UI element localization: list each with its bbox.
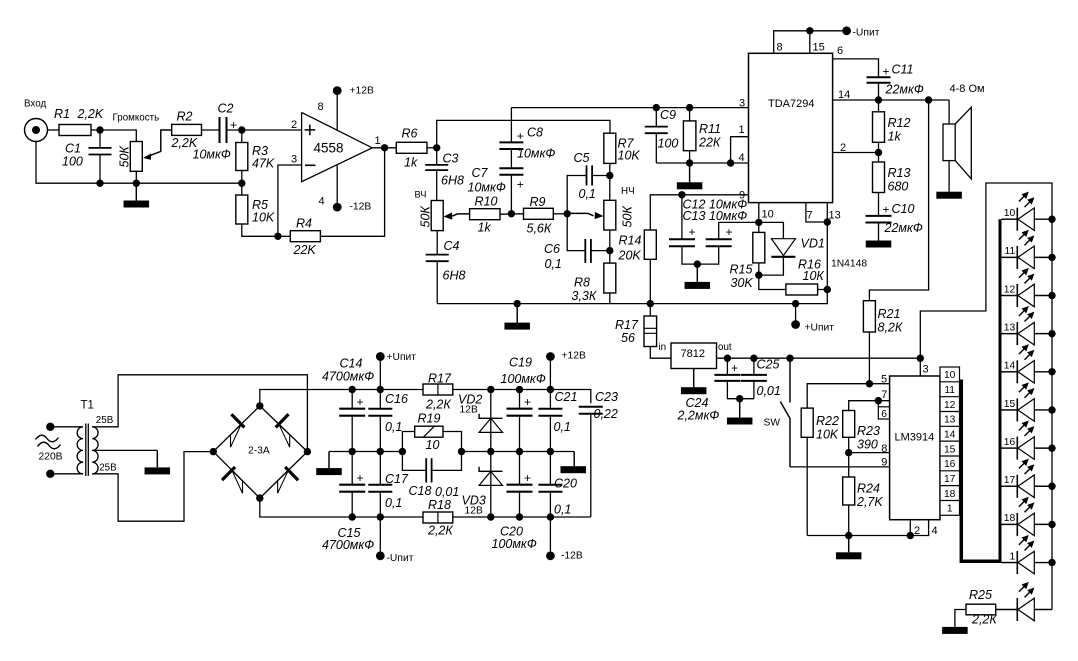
svg-text:14: 14 xyxy=(838,89,850,101)
tone bottom rail xyxy=(437,290,827,304)
LED HL7 (pin 16) emission arrows xyxy=(1019,421,1035,437)
value R16 10К xyxy=(803,269,825,283)
svg-text:+: + xyxy=(883,65,890,79)
node R24 ground xyxy=(845,532,852,539)
wire R8 bottom lead xyxy=(609,293,611,304)
node output to meter xyxy=(925,96,932,103)
wire jack ground side xyxy=(36,142,242,184)
svg-text:22мкФ: 22мкФ xyxy=(885,83,924,97)
wire to R7 top xyxy=(437,120,610,147)
pin 1 label LM xyxy=(947,504,953,515)
value C4 6Н8 xyxy=(443,269,466,283)
LED HL5 (pin 14) xyxy=(1002,360,1053,383)
pin 18 label LM xyxy=(944,489,956,500)
wire R5 bottom to feedback node xyxy=(242,224,278,236)
LED HL11 lowest xyxy=(996,598,1052,621)
terminal +Uпит left xyxy=(376,352,385,361)
node +Uпит tap xyxy=(792,300,799,307)
feedback top line xyxy=(511,107,656,109)
wire R4 left lead xyxy=(278,235,290,237)
svg-text:0,01: 0,01 xyxy=(757,384,781,398)
node C11/R12 xyxy=(875,96,882,103)
label +Uпит left xyxy=(387,352,417,363)
terminal -Uпит top xyxy=(842,26,851,35)
wire pin8 line xyxy=(849,452,890,454)
wire AC top xyxy=(50,426,83,428)
svg-text:0,22: 0,22 xyxy=(594,407,618,421)
wire +12V supply xyxy=(336,91,338,131)
value C2 10мкФ xyxy=(193,148,231,162)
pin 6 label TDA xyxy=(837,45,843,57)
positive rail xyxy=(352,389,423,391)
svg-text:R6: R6 xyxy=(402,127,418,141)
op-amp 4558 label xyxy=(314,141,344,156)
svg-text:50К: 50К xyxy=(419,206,433,228)
svg-text:C1: C1 xyxy=(65,142,81,156)
LED HL2 (pin 11) emission arrows xyxy=(1019,230,1035,246)
pin 6 label LM xyxy=(881,409,887,420)
input jack connector Вход xyxy=(25,119,48,142)
resistor R11 xyxy=(683,121,696,151)
wire C13 top lead xyxy=(719,222,759,239)
LED driver U4 LM3914 box xyxy=(890,376,940,520)
node mid VD2 xyxy=(487,448,494,455)
bass pot wiper arrow xyxy=(567,212,603,219)
svg-text:+: + xyxy=(689,225,696,239)
node neg C20b xyxy=(547,513,554,520)
plus C19 xyxy=(524,395,531,409)
capacitor C17 xyxy=(368,485,392,492)
node feedback junction xyxy=(274,233,281,240)
pin 4 label TDA xyxy=(739,152,745,164)
node C24/C25 ground xyxy=(736,395,743,402)
node LED HL10 anode xyxy=(1048,559,1055,566)
value C20 100мкФ xyxy=(492,537,537,551)
wire pin3 line xyxy=(656,107,748,109)
svg-text:TDA7294: TDA7294 xyxy=(768,98,814,110)
label R1 xyxy=(54,107,70,121)
value R10 1k xyxy=(478,221,492,235)
wire C15 top lead xyxy=(351,452,353,485)
capacitor C24 xyxy=(714,375,740,381)
wire C24 top lead xyxy=(726,358,728,375)
wire C25 bottom lead xyxy=(753,381,755,399)
label T1 xyxy=(81,400,94,412)
capacitor C6 xyxy=(585,239,591,263)
LED HL1 (pin 10) xyxy=(1002,208,1053,231)
wire C19 bottom lead xyxy=(519,416,521,452)
label Вход xyxy=(24,99,46,110)
value R11 22К xyxy=(698,136,721,150)
value R17 56 xyxy=(621,331,635,345)
capacitor C8 xyxy=(499,142,523,149)
label TDA7294 xyxy=(768,98,814,110)
value C19 100мкФ xyxy=(501,372,546,386)
label VD2 xyxy=(458,393,482,407)
svg-text:C19: C19 xyxy=(509,356,532,370)
wire x928 sense line xyxy=(869,100,928,301)
value C20 0,1 xyxy=(554,503,571,517)
svg-text:20K: 20K xyxy=(618,249,642,263)
capacitor C21 xyxy=(538,409,562,416)
pin 8 label LM xyxy=(881,443,887,455)
node C12/C13 ground xyxy=(694,260,701,267)
svg-text:1N4148: 1N4148 xyxy=(831,259,867,270)
LED HL10 (pin 1) pin label xyxy=(1009,551,1015,562)
label +12В rail xyxy=(562,351,586,362)
wire R10 to R9 xyxy=(500,213,524,215)
value C7 10мкФ xyxy=(468,181,506,195)
svg-text:10: 10 xyxy=(944,370,956,381)
svg-text:9: 9 xyxy=(881,456,887,468)
svg-text:10K: 10K xyxy=(252,211,275,225)
wire C11 bottom lead xyxy=(878,83,880,100)
svg-text:2,2К: 2,2К xyxy=(971,613,997,627)
value treble pot 50К xyxy=(419,206,433,228)
LED HL4 (pin 13) xyxy=(1002,322,1053,345)
svg-text:+12В: +12В xyxy=(562,351,586,362)
svg-text:ВЧ: ВЧ xyxy=(415,190,427,200)
wire pot to C4 xyxy=(436,231,438,255)
label C9 xyxy=(660,108,676,122)
svg-text:15: 15 xyxy=(944,444,956,455)
wire VD3 lead xyxy=(490,452,492,518)
wire pin5 line xyxy=(807,384,889,408)
wire R7 bottom lead xyxy=(609,163,611,200)
svg-text:100мкФ: 100мкФ xyxy=(501,372,546,386)
svg-text:R19: R19 xyxy=(418,412,441,426)
node pin1/pin4 xyxy=(727,159,734,166)
label C11 xyxy=(892,63,914,77)
wire to speaker xyxy=(948,100,950,124)
svg-text:7812: 7812 xyxy=(681,348,705,360)
terminal AC top xyxy=(46,423,54,431)
plus C8 xyxy=(517,129,524,143)
svg-text:R22: R22 xyxy=(816,414,839,428)
bridge arm bottom-left xyxy=(213,452,259,499)
svg-text:R10: R10 xyxy=(475,195,498,209)
svg-text:R25: R25 xyxy=(969,588,992,602)
wire C1 top lead xyxy=(99,130,101,148)
wire C17 top lead xyxy=(379,452,381,485)
svg-text:2: 2 xyxy=(914,525,920,537)
wire R12 bottom lead xyxy=(878,142,880,162)
label R4 xyxy=(296,217,312,231)
capacitor C19 xyxy=(507,409,533,416)
wire -Uпит stub xyxy=(379,517,381,554)
power amplifier U2 TDA7294 box xyxy=(749,53,833,202)
wire -12V stub xyxy=(549,517,551,554)
pin 9 label LM xyxy=(881,456,887,468)
wire -12V supply xyxy=(336,166,338,208)
svg-text:6: 6 xyxy=(881,409,887,420)
svg-text:+: + xyxy=(524,395,531,409)
LED HL4 (pin 13) emission arrows xyxy=(1019,306,1035,322)
resistor R25 xyxy=(966,604,996,615)
op-amp U1 4558 triangle xyxy=(302,112,373,181)
label R13 xyxy=(888,166,911,180)
wire C3 top lead xyxy=(436,148,438,165)
wire +Uпит stub xyxy=(795,304,797,322)
svg-text:4: 4 xyxy=(932,525,938,537)
label Громкость xyxy=(113,113,160,124)
svg-text:10мкФ: 10мкФ xyxy=(468,181,506,195)
pin 3 label TDA xyxy=(739,97,745,109)
wire C7 bottom lead xyxy=(510,175,512,214)
svg-text:22мкФ: 22мкФ xyxy=(884,221,923,235)
value R14 20K xyxy=(618,249,642,263)
terminal -12V rail xyxy=(546,551,555,560)
wire R4 to output xyxy=(320,148,384,237)
wire C5 to R7 bottom xyxy=(593,175,610,177)
value C14 4700мкФ xyxy=(322,370,374,384)
value C11 22мкФ xyxy=(885,83,924,97)
svg-text:8,2К: 8,2К xyxy=(878,321,903,335)
resistor R13 xyxy=(873,162,885,193)
svg-text:C2: C2 xyxy=(218,102,234,116)
node top line C9 xyxy=(653,104,660,111)
svg-text:C21: C21 xyxy=(555,390,578,404)
svg-text:НЧ: НЧ xyxy=(621,186,635,197)
node C1 bottom xyxy=(96,180,103,187)
ground mid rail right xyxy=(561,452,587,474)
svg-text:6: 6 xyxy=(837,45,843,57)
plus C7 xyxy=(517,178,524,192)
svg-text:R14: R14 xyxy=(619,234,642,248)
svg-text:4558: 4558 xyxy=(314,141,344,156)
svg-text:+: + xyxy=(726,225,733,239)
pin 3 label xyxy=(291,154,297,166)
svg-text:-Uпит: -Uпит xyxy=(853,28,880,39)
plus C24 xyxy=(731,361,738,375)
node bridge right xyxy=(304,448,311,455)
pin 17 label LM xyxy=(944,474,956,485)
svg-text:50К: 50К xyxy=(621,206,635,228)
wire pin9 line xyxy=(790,466,890,468)
svg-text:C3: C3 xyxy=(443,152,459,166)
capacitor C7 xyxy=(499,168,523,175)
label R7 xyxy=(618,137,635,151)
label out xyxy=(718,342,732,353)
node R11 top xyxy=(686,104,693,111)
node rail C19 xyxy=(516,386,523,393)
svg-text:C5: C5 xyxy=(574,151,590,165)
svg-text:11: 11 xyxy=(944,385,955,396)
svg-text:0,01: 0,01 xyxy=(435,485,459,499)
node R14/R17 xyxy=(647,300,654,307)
pin 4 label xyxy=(319,196,325,208)
ground C10 xyxy=(866,241,892,248)
label C18 xyxy=(409,484,432,498)
label +Uпит right xyxy=(805,323,835,334)
svg-text:100: 100 xyxy=(658,137,679,151)
wire R14 bottom lead xyxy=(649,259,651,303)
svg-text:10: 10 xyxy=(426,438,440,452)
svg-text:0,1: 0,1 xyxy=(385,420,402,434)
value R2 2,2K xyxy=(171,136,198,150)
svg-text:8: 8 xyxy=(881,443,887,455)
node rail VD2 xyxy=(487,386,494,393)
resistor R24 xyxy=(843,477,855,505)
svg-text:10: 10 xyxy=(1004,208,1016,219)
label C17 xyxy=(385,472,409,486)
mid rail left xyxy=(329,451,402,453)
node C9/R11 bottom xyxy=(686,159,693,166)
wire C12 bottom lead xyxy=(682,246,697,264)
pin 15 label TDA xyxy=(813,42,825,54)
LED HL9 (pin 18) emission arrows xyxy=(1019,497,1035,513)
wire C3 to treble pot xyxy=(436,170,438,200)
svg-text:1k: 1k xyxy=(888,130,902,144)
wire R2 to C2 xyxy=(202,129,219,131)
LED HL2 (pin 11) xyxy=(1002,246,1053,269)
svg-text:6Н8: 6Н8 xyxy=(441,174,464,188)
node neg VD3 xyxy=(487,513,494,520)
value VD3 12В xyxy=(465,506,483,517)
wire bridge plus out xyxy=(260,390,352,406)
label C2 xyxy=(218,102,234,116)
wire pin8 supply xyxy=(774,31,847,54)
resistor R4 xyxy=(290,231,320,242)
svg-text:3: 3 xyxy=(923,364,929,376)
svg-text:17: 17 xyxy=(944,474,956,485)
svg-text:18: 18 xyxy=(1004,513,1016,524)
capacitor C23 xyxy=(579,407,603,414)
svg-text:R13: R13 xyxy=(888,166,911,180)
wire C10 bottom lead xyxy=(878,223,880,241)
pin 15 label LM xyxy=(944,444,956,455)
capacitor C13 xyxy=(706,239,732,246)
pin 1 label TDA xyxy=(739,124,745,136)
svg-text:1: 1 xyxy=(947,504,953,515)
switch SW xyxy=(780,358,790,467)
svg-text:2: 2 xyxy=(291,119,297,131)
pin 13 label LM xyxy=(944,415,956,426)
svg-text:-12В: -12В xyxy=(561,551,583,562)
wire R19 loop right xyxy=(443,432,462,452)
svg-text:100мкФ: 100мкФ xyxy=(492,537,537,551)
wire R1 to volume pot top xyxy=(91,130,136,142)
wire R3 top lead xyxy=(241,130,243,143)
wire secondary center tap xyxy=(92,449,157,451)
node LED HL5 anode xyxy=(1048,368,1055,375)
label C1 xyxy=(65,142,81,156)
wire pin1 tie xyxy=(731,137,749,163)
pin 12 label LM xyxy=(944,400,956,411)
label C15 xyxy=(338,526,361,540)
node out/SW xyxy=(786,355,793,362)
wire C18 loop right xyxy=(432,452,462,471)
pin 2 label LM xyxy=(914,525,920,537)
node output xyxy=(381,144,388,151)
value R23 390 xyxy=(857,438,878,452)
ground C24 C25 xyxy=(727,399,753,425)
plus C15 xyxy=(357,471,364,485)
wire C20e bottom lead xyxy=(519,492,521,517)
wire +12V stub xyxy=(549,358,551,390)
value C1 100 xyxy=(62,155,83,169)
label C6 xyxy=(544,242,560,256)
label НЧ xyxy=(621,186,635,197)
pin 7 label LM xyxy=(881,389,887,401)
label R12 xyxy=(888,116,911,130)
pin 9 label TDA xyxy=(739,190,745,202)
wire R17 to 7812 in xyxy=(650,347,671,359)
svg-text:3: 3 xyxy=(739,97,745,109)
svg-text:220В: 220В xyxy=(39,452,63,463)
svg-text:30K: 30K xyxy=(731,276,754,290)
label C16 xyxy=(385,392,408,406)
bus wire LM3914 to LEDs xyxy=(961,219,1001,562)
svg-text:C20: C20 xyxy=(554,477,577,491)
svg-text:47K: 47K xyxy=(252,157,275,171)
wire pin14 output xyxy=(833,99,950,101)
svg-text:LM3914: LM3914 xyxy=(895,432,935,444)
wire C20b top lead xyxy=(549,452,551,485)
svg-text:+: + xyxy=(357,471,364,485)
svg-text:R12: R12 xyxy=(888,116,911,130)
value C10 22мкФ xyxy=(884,221,923,235)
node pin5 xyxy=(866,380,873,387)
wire pin4 stub xyxy=(910,520,928,536)
node R1/C1 xyxy=(96,126,103,133)
pin 6 box LM xyxy=(878,401,889,419)
label R15 xyxy=(730,263,753,277)
label C23 xyxy=(595,390,618,404)
LM3914 output pin boxes 10-18 and 1 xyxy=(940,367,960,515)
LED HL5 (pin 14) emission arrows xyxy=(1019,344,1035,360)
resistor R1 xyxy=(59,125,91,136)
svg-text:1: 1 xyxy=(375,135,381,147)
svg-text:25В: 25В xyxy=(99,462,117,473)
ground TDA input xyxy=(677,163,703,189)
wire pin2 stub xyxy=(909,520,911,536)
LED HL3 (pin 12) pin label xyxy=(1004,284,1016,295)
svg-text:3: 3 xyxy=(291,154,297,166)
ground tone section xyxy=(504,304,530,330)
svg-text:16: 16 xyxy=(1004,437,1016,448)
wire pin4 line xyxy=(656,162,748,164)
node out/C25 xyxy=(750,355,757,362)
label C8 xyxy=(527,126,543,140)
svg-text:15: 15 xyxy=(813,42,825,54)
pin 1 label xyxy=(375,135,381,147)
pin 2 label TDA xyxy=(840,142,846,154)
value C3 6Н8 xyxy=(441,174,464,188)
label R8 xyxy=(574,276,590,290)
potentiometer bass 50К xyxy=(604,200,616,230)
capacitor C4 xyxy=(426,255,449,262)
svg-text:10: 10 xyxy=(762,209,774,221)
node LED HL9 anode xyxy=(1048,521,1055,528)
svg-text:C7: C7 xyxy=(472,166,489,180)
node Vplus/pin3 xyxy=(917,355,924,362)
LED HL8 (pin 17) emission arrows xyxy=(1019,459,1035,475)
wire pin9 mute xyxy=(682,194,749,196)
zener diode VD2 xyxy=(479,414,502,433)
value R5 10K xyxy=(252,211,275,225)
svg-text:2,2K: 2,2K xyxy=(77,107,104,121)
node pin7/pin13 xyxy=(824,218,831,225)
plus C13 xyxy=(726,225,733,239)
wire to C6 xyxy=(567,214,585,251)
svg-text:R15: R15 xyxy=(730,263,753,277)
label 2-3А xyxy=(248,446,270,457)
plus C2 xyxy=(230,118,237,132)
label C12 10мкФ xyxy=(683,198,748,212)
wire C21 bottom lead xyxy=(549,416,551,452)
pin 7 label TDA xyxy=(807,210,813,222)
